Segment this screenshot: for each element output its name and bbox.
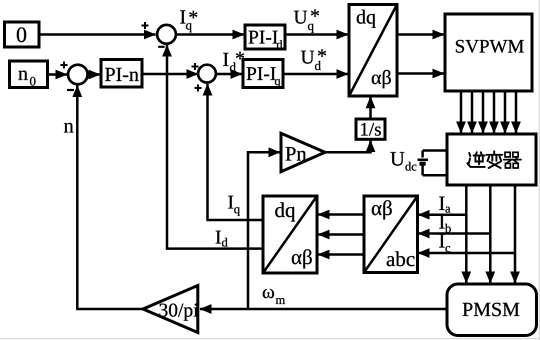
plus sign at SN [61, 62, 68, 69]
label alpha-beta (top block) [372, 70, 391, 88]
minus sign at SN [67, 89, 74, 91]
block PMSM [447, 284, 537, 336]
summing junction S2 (Id loop) [198, 65, 216, 83]
label Iq feedback [228, 196, 233, 209]
wire Udc top [423, 149, 447, 152]
wire PI-Id to dq block (Uq*) [285, 33, 348, 36]
wire PI-Iq to dq block (Ud*) [283, 73, 348, 76]
wire S2 to PI-Iq [216, 73, 242, 76]
block 1/s integrator [356, 119, 385, 139]
wire dq to SVPWM (upper) [397, 33, 444, 36]
wire SVPWM to inverter 1 [460, 91, 463, 133]
wire abc to dq2 line 1 [318, 213, 364, 216]
block n0 (speed reference) [10, 61, 48, 88]
wire Pn to 1/s [325, 141, 371, 153]
wire abc to dq2 line 2 [318, 233, 364, 236]
wire SVPWM to inverter 5 [504, 91, 507, 133]
wire abc to dq2 line 3 [318, 253, 364, 256]
wire Iq feedback to S2 [208, 84, 264, 220]
block dq2 (current transform) [263, 196, 317, 273]
label PMSM [463, 303, 520, 316]
label Ia [439, 197, 444, 210]
summing junction SN (speed loop) [68, 65, 88, 85]
block PI-n [101, 60, 142, 88]
wire inverter to PMSM phase b [489, 185, 492, 283]
wire current tap Ib [418, 232, 490, 235]
wire Id feedback to S1 [167, 45, 263, 249]
wire 30/pi to SN (n feedback) [77, 86, 143, 310]
label n feedback [64, 123, 73, 133]
label 1/s [361, 123, 381, 136]
wire 1/s to dq block (theta) [369, 97, 372, 119]
block PI-Iq [243, 60, 283, 88]
label PI-Iq [247, 67, 276, 80]
wire PI-n to summing junction S2 [142, 73, 198, 76]
label PI-n [105, 68, 139, 81]
label Ic [439, 234, 444, 247]
wire SVPWM to inverter 4 [493, 91, 496, 133]
wire Udc bottom [423, 174, 447, 177]
summing junction S1 (Iq loop) [157, 25, 176, 44]
label dq (bottom block) [275, 202, 295, 221]
wire SVPWM to inverter 6 [515, 91, 518, 133]
label dq (top block) [357, 10, 376, 28]
block inverter [447, 134, 536, 185]
minus sign at S1 [158, 46, 164, 48]
plus sign at S1 [142, 22, 149, 29]
wire SN to PI-n [88, 73, 101, 76]
chinese character ni (inverter char 1) [467, 152, 485, 167]
wire current tap Ic [418, 252, 515, 255]
block dq to alpha-beta transform (top) [349, 5, 397, 97]
wire n0 to summing junction SN [48, 73, 68, 76]
label Ib [439, 215, 444, 228]
wire SVPWM to inverter 2 [471, 91, 474, 133]
label omega-m [263, 289, 274, 298]
label Id* [223, 53, 228, 66]
block PI-Id [245, 25, 285, 49]
wire SVPWM to inverter 3 [482, 91, 485, 133]
block alpha-beta to abc transform [364, 196, 418, 273]
wire 0 to summing junction S1 [39, 33, 156, 36]
label Ud* [301, 51, 314, 64]
wire dq to SVPWM (lower) [397, 72, 444, 75]
label alpha-beta (abc block) [372, 200, 392, 219]
wire omega-m riser to Pn [248, 152, 280, 309]
wire inverter to PMSM phase c [514, 185, 517, 283]
label Uq* [294, 11, 307, 24]
wire current tap Ia [418, 213, 466, 216]
label 0 [17, 27, 26, 42]
label Pn [286, 147, 307, 160]
battery Udc symbol [418, 151, 429, 176]
label n0 [18, 71, 27, 80]
plus sign at S2 top [192, 63, 199, 70]
block SVPWM [445, 14, 532, 91]
label PI-Id [249, 31, 278, 44]
label Iq* [180, 10, 185, 23]
faint figure border bottom [0, 338, 540, 340]
faint figure border right [538, 0, 540, 340]
wire S1 to PI-Id [176, 33, 244, 36]
wire inverter to PMSM phase a [465, 185, 468, 283]
block 30/pi gain triangle [143, 286, 198, 333]
plus sign at S2 bottom [195, 85, 202, 92]
label SVPWM [456, 40, 524, 53]
label Udc [390, 152, 404, 166]
wire omega-m from PMSM to 30/pi [200, 308, 447, 311]
label abc [387, 251, 415, 266]
chinese character qi (inverter char 3) [504, 152, 521, 168]
chinese character bian (inverter char 2) [487, 151, 503, 168]
label Id feedback [216, 231, 221, 244]
block 0 (zero reference) [5, 22, 40, 47]
block Pn gain triangle [281, 133, 325, 171]
label alpha-beta (bottom block) [292, 249, 312, 268]
label 30/pi [159, 304, 198, 321]
